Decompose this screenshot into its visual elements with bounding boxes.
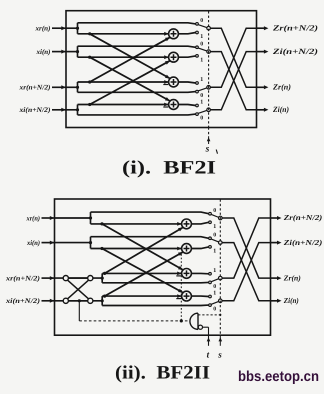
adder A4 (BF2I) xyxy=(169,100,179,110)
svg-text:s: s xyxy=(217,350,222,360)
node row 1 tap (BF2II) xyxy=(100,222,103,225)
svg-text:0: 0 xyxy=(213,284,216,290)
minus sign at adder A3 (BF2I) xyxy=(163,84,168,86)
switch S1 (BF2I) xyxy=(196,23,211,34)
adder A1 (BF2II) xyxy=(182,219,192,229)
svg-text:1: 1 xyxy=(213,291,216,297)
svg-text:xr(n): xr(n) xyxy=(26,214,40,222)
adder A3 (BF2I) xyxy=(169,77,179,87)
wire row 4 to adder (BF2I) xyxy=(78,104,169,106)
wire adder A2 output to switch contact 1 (BF2II) xyxy=(191,247,208,249)
control line s dashed (BF2II) xyxy=(219,199,221,335)
control line s below box (BF2II) xyxy=(219,335,221,346)
cross wire row 1 to adder 3 (BF2I) xyxy=(90,34,170,79)
control line t (BF2II) xyxy=(208,327,210,346)
wire adder A4 output to switch contact 1 (BF2II) xyxy=(191,295,208,297)
row 2 left edge (BF2I) xyxy=(77,46,79,57)
wire bypass row 2 to switch contact 0 (BF2I) xyxy=(78,46,196,47)
svg-text:xi(n): xi(n) xyxy=(36,48,51,56)
wire crossover control vertical (BF2II) xyxy=(78,301,80,321)
input arrow xr(n) (BF2I) xyxy=(52,27,66,29)
wire pole S1 to output Zr(n) (BF2I) xyxy=(210,28,256,87)
node row 2 input junction (BF2I) xyxy=(76,50,79,53)
control line s below box (BF2I) xyxy=(208,128,210,138)
row 4 left edge (BF2II) xyxy=(101,296,103,305)
wire input to row 1 (BF2II) xyxy=(54,217,90,219)
wire bypass row 4 to switch contact 0 (BF2I) xyxy=(78,113,196,116)
row 1 left edge (BF2I) xyxy=(77,23,79,34)
wire row 1 to adder (BF2I) xyxy=(78,33,169,35)
wire adder A1 output to switch contact 1 (BF2II) xyxy=(191,222,208,224)
input arrow xr(n+N/2) (BF2II) xyxy=(42,277,55,279)
wire adder A1 output to switch contact 1 (BF2I) xyxy=(178,33,195,34)
node row 3 input junction (BF2I) xyxy=(76,86,79,89)
wire gate input A from s line (BF2II) xyxy=(198,314,220,316)
svg-text:t: t xyxy=(207,350,210,360)
svg-text:1: 1 xyxy=(213,268,216,274)
wire row 4 to adder (BF2II) xyxy=(102,295,181,297)
wire bypass row 4 to switch contact 0 (BF2II) xyxy=(102,304,209,306)
wire input to row 2 (BF2II) xyxy=(54,242,90,244)
svg-text:Zi(n): Zi(n) xyxy=(283,296,299,305)
switch S2 (BF2I) xyxy=(196,46,211,57)
row 4 left edge (BF2I) xyxy=(77,105,79,115)
input arrow xr(n) (BF2II) xyxy=(42,217,55,219)
svg-text:1: 1 xyxy=(213,249,216,255)
switch S4 (BF2I) xyxy=(196,104,211,115)
cross wire row 3 to adder 1 (BF2I) xyxy=(90,37,170,82)
node row 2 tap (BF2II) xyxy=(100,247,103,250)
wire row 3 to adder (BF2I) xyxy=(78,81,169,83)
cross wire row 3 to adder 1 (BF2II) xyxy=(105,227,183,273)
svg-text:0: 0 xyxy=(200,18,203,24)
input arrow xi(n+N/2) (BF2II) xyxy=(42,300,55,302)
wire input to row 2 (BF2I) xyxy=(66,51,78,53)
wire pole S2 to output Zi(n) (BF2I) xyxy=(210,52,256,110)
adder A2 (BF2I) xyxy=(169,52,179,62)
wire row 2 to adder (BF2I) xyxy=(78,56,169,58)
node row 3 input junction (BF2II) xyxy=(101,277,104,280)
svg-text:s: s xyxy=(205,145,210,155)
svg-text:xr(n+N/2): xr(n+N/2) xyxy=(18,84,50,92)
wire pole S4 to output Zi(n+N/2) (BF2II) xyxy=(222,243,270,301)
switch S3 (BF2I) xyxy=(196,82,211,93)
adder A1 (BF2I) xyxy=(169,29,179,39)
node row 4 input junction (BF2I) xyxy=(76,108,79,111)
wire gate input B from t line (BF2II) xyxy=(203,326,209,328)
outer box (BF2I) xyxy=(66,11,257,128)
input arrow xi(n+N/2) (BF2I) xyxy=(52,109,66,111)
row 1 left edge (BF2II) xyxy=(90,212,92,224)
wire adder A2 output to switch contact 1 (BF2I) xyxy=(178,56,195,57)
switch S2 (BF2II) xyxy=(209,237,222,248)
input arrow xi(n) (BF2II) xyxy=(42,242,55,244)
control line s dashed (BF2I) xyxy=(208,11,210,127)
wire input to row 1 (BF2I) xyxy=(66,27,78,29)
cross wire row 2 to adder 4 (BF2I) xyxy=(90,57,170,101)
wire gate output dashed to crossover (BF2II) xyxy=(79,320,190,322)
wire pole S1 to output Zr(n) (BF2II) xyxy=(222,218,270,278)
wire input to row 3 (BF2II) xyxy=(54,277,102,279)
output arrow Zi(n) (BF2II) xyxy=(271,300,279,302)
svg-text:1: 1 xyxy=(200,58,203,64)
svg-text:0: 0 xyxy=(200,42,203,48)
svg-text:Zr(n+N/2): Zr(n+N/2) xyxy=(272,23,319,32)
node gate output branch (BF2II) xyxy=(180,319,183,322)
row 2 left edge (BF2II) xyxy=(90,237,92,249)
wire bypass row 2 to switch contact 0 (BF2II) xyxy=(91,237,209,239)
wire row 1 to adder (BF2II) xyxy=(91,223,182,225)
svg-text:1: 1 xyxy=(200,100,203,106)
row 3 left edge (BF2II) xyxy=(101,273,103,282)
wire input to row 4 (BF2I) xyxy=(66,109,78,111)
node row 1 input junction (BF2I) xyxy=(76,27,79,30)
wire pole S3 to output Zr(n+N/2) (BF2II) xyxy=(222,218,270,278)
node row 3 tap (BF2I) xyxy=(88,80,91,83)
row 3 left edge (BF2I) xyxy=(77,82,79,92)
AND gate U1 (BF2II) xyxy=(190,313,198,329)
outer box (BF2II) xyxy=(55,199,271,335)
node row 1 tap (BF2I) xyxy=(88,32,91,35)
svg-text:0: 0 xyxy=(213,233,216,239)
svg-text:Zi(n+N/2): Zi(n+N/2) xyxy=(272,47,319,56)
node row 4 tap (BF2II) xyxy=(103,295,106,298)
svg-text:Zr(n+N/2): Zr(n+N/2) xyxy=(283,213,323,222)
input arrow xr(n+N/2) (BF2I) xyxy=(52,86,66,88)
wire gate output branch up to adder A2 (BF2II) xyxy=(180,254,182,321)
svg-text:0: 0 xyxy=(213,307,216,313)
output arrow Zi(n) (BF2I) xyxy=(257,109,265,111)
output arrow Zr(n) (BF2II) xyxy=(271,277,279,279)
output arrow Zr(n+N/2) (BF2II) xyxy=(271,217,279,219)
svg-text:xi(n+N/2): xi(n+N/2) xyxy=(18,106,50,114)
svg-text:1: 1 xyxy=(200,77,203,83)
svg-text:Zi(n): Zi(n) xyxy=(272,105,289,114)
output arrow Zr(n+N/2) (BF2I) xyxy=(257,27,265,29)
switch S3 (BF2II) xyxy=(209,273,222,284)
svg-text:Zi(n+N/2): Zi(n+N/2) xyxy=(283,238,323,247)
svg-text:xi(n+N/2): xi(n+N/2) xyxy=(5,297,40,305)
svg-text:1: 1 xyxy=(200,34,203,40)
svg-text:0: 0 xyxy=(200,116,203,122)
wire bypass row 3 to switch contact 0 (BF2I) xyxy=(78,91,196,94)
svg-text:xr(n+N/2): xr(n+N/2) xyxy=(5,275,40,283)
adder A2 (BF2II) xyxy=(182,244,192,254)
stray tick after caption xyxy=(216,150,217,154)
svg-text:Zr(n): Zr(n) xyxy=(283,273,301,282)
minus sign at adder A4 (BF2I) xyxy=(163,106,168,108)
output arrow Zi(n+N/2) (BF2II) xyxy=(271,242,279,244)
svg-text:(i). BF2I: (i). BF2I xyxy=(122,158,216,179)
wire adder A4 output to switch contact 1 (BF2I) xyxy=(178,105,195,106)
node row 4 tap (BF2I) xyxy=(88,103,91,106)
input arrow xi(n) (BF2I) xyxy=(52,51,66,53)
control tap at crossover (BF2II) xyxy=(78,299,81,302)
svg-text:0: 0 xyxy=(213,208,216,214)
switch S1 (BF2II) xyxy=(209,212,222,223)
inverter bubble on gate input (BF2II) xyxy=(198,325,202,329)
cross wire row 1 to adder 3 (BF2II) xyxy=(102,224,183,270)
svg-text:1: 1 xyxy=(213,224,216,230)
wire input to row 3 (BF2I) xyxy=(66,86,78,88)
cross wire row 4 to adder 2 (BF2I) xyxy=(90,61,170,105)
svg-text:(ii). BF2II: (ii). BF2II xyxy=(115,363,210,384)
wire bypass row 1 to switch contact 0 (BF2I) xyxy=(78,23,196,24)
minus sign at adder A3 (BF2II) xyxy=(176,275,181,277)
svg-text:0: 0 xyxy=(200,93,203,99)
wire bypass row 3 to switch contact 0 (BF2II) xyxy=(102,281,209,283)
wire row 2 to adder (BF2II) xyxy=(91,248,182,250)
adder A4 (BF2II) xyxy=(182,291,192,301)
crossover exchange rows 3-4 (BF2II) xyxy=(63,276,93,304)
minus sign at adder A4 (BF2II) xyxy=(176,298,181,300)
node row 3 tap (BF2II) xyxy=(103,272,106,275)
wire pole S4 to output Zi(n+N/2) (BF2I) xyxy=(210,52,256,110)
wire row 3 to adder (BF2II) xyxy=(102,272,181,274)
svg-text:xr(n): xr(n) xyxy=(34,25,50,33)
svg-text:Zr(n): Zr(n) xyxy=(272,83,291,92)
output arrow Zr(n) (BF2I) xyxy=(257,86,265,88)
node row 2 tap (BF2I) xyxy=(88,56,91,59)
wire adder A3 output to switch contact 1 (BF2I) xyxy=(178,82,195,83)
cross wire row 4 to adder 2 (BF2II) xyxy=(105,252,183,296)
node row 1 input junction (BF2II) xyxy=(89,216,92,219)
svg-text:bbs.eetop.cn: bbs.eetop.cn xyxy=(238,369,319,385)
svg-text:xi(n): xi(n) xyxy=(26,239,40,247)
node row 4 input junction (BF2II) xyxy=(101,299,104,302)
wire pole S3 to output Zr(n+N/2) (BF2I) xyxy=(210,28,256,87)
output arrow Zi(n+N/2) (BF2I) xyxy=(257,51,265,53)
wire pole S2 to output Zi(n) (BF2II) xyxy=(222,243,270,301)
adder A3 (BF2II) xyxy=(182,269,192,279)
cross wire row 2 to adder 4 (BF2II) xyxy=(102,249,183,293)
wire adder A3 output to switch contact 1 (BF2II) xyxy=(191,272,208,274)
wire bypass row 1 to switch contact 0 (BF2II) xyxy=(91,212,209,214)
node row 2 input junction (BF2II) xyxy=(89,241,92,244)
wire input to row 4 (BF2II) xyxy=(54,300,102,302)
switch S4 (BF2II) xyxy=(209,295,222,306)
